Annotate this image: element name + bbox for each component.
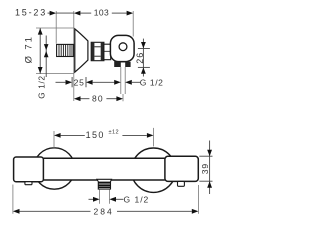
left grip tab bbox=[25, 182, 32, 185]
escutcheon cone bbox=[75, 29, 88, 72]
svg-text:G 1/2: G 1/2 bbox=[140, 78, 164, 88]
right grip tab bbox=[178, 181, 185, 186]
svg-text:±12: ±12 bbox=[109, 130, 120, 136]
svg-text:284: 284 bbox=[94, 206, 114, 216]
dimension 39 bbox=[209, 141, 211, 195]
left union escutcheon circle bbox=[34, 148, 75, 189]
outlet centre stub bbox=[122, 94, 124, 101]
dimension 26 bbox=[142, 39, 144, 77]
dimension 25 bbox=[56, 81, 66, 83]
handle front (rounded square) bbox=[110, 35, 134, 61]
outlet pipe extension lines bbox=[120, 67, 122, 94]
dimension 103 bbox=[74, 11, 81, 16]
extension line nipple end bbox=[55, 11, 57, 44]
extension line wall (left datum) bbox=[73, 11, 75, 101]
outlet extension lines bbox=[99, 190, 101, 204]
dimension Ø71 ticks bbox=[36, 27, 74, 29]
leader G 1/2 (wall supply thread) bbox=[45, 36, 47, 78]
outlet thread collar bbox=[114, 61, 130, 67]
dimension 80 bbox=[74, 96, 81, 101]
valve body bbox=[104, 44, 111, 60]
svg-text:150: 150 bbox=[86, 130, 105, 140]
right union escutcheon circle bbox=[131, 148, 175, 192]
extension line handle right bbox=[132, 11, 134, 37]
svg-text:15-23: 15-23 bbox=[15, 7, 47, 17]
dimension 150 +-12 bbox=[53, 131, 55, 149]
svg-text:25: 25 bbox=[74, 77, 85, 87]
leader to outlet G 1/2 bbox=[93, 81, 115, 83]
temperature handle (left) bbox=[14, 157, 44, 182]
svg-text:103: 103 bbox=[94, 7, 109, 17]
handle dot bbox=[119, 43, 127, 51]
hose outlet (threaded) bbox=[97, 179, 112, 189]
dimension 284 bbox=[12, 185, 14, 214]
svg-text:26: 26 bbox=[135, 52, 145, 64]
shut-off handle (right) bbox=[165, 156, 198, 181]
svg-text:39: 39 bbox=[200, 163, 210, 174]
svg-text:G 1/2: G 1/2 bbox=[38, 75, 47, 99]
threaded nipple bbox=[57, 44, 74, 56]
mixer bar body bbox=[43, 158, 164, 180]
svg-text:80: 80 bbox=[92, 94, 104, 104]
svg-text:Ø 71: Ø 71 bbox=[23, 35, 34, 63]
leader G 1/2 bottom bbox=[89, 198, 94, 200]
dimension Ø71 line and arrows bbox=[39, 28, 41, 74]
knurled nut bbox=[91, 42, 104, 60]
svg-text:G 1/2: G 1/2 bbox=[124, 194, 150, 204]
